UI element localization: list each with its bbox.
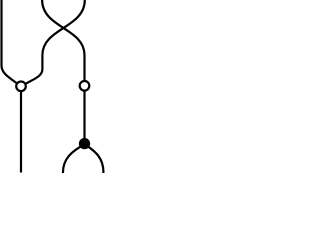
black dot D1 (filled node, splits into wires E and F) (79, 138, 90, 149)
wire C (third input, crosses to the left, curves into white node N1) (21, 0, 85, 86)
wire A (far-left input, curves into white node N1) (2, 0, 22, 86)
wire F (right leg out of black dot D1) (85, 144, 104, 173)
wire E (left leg out of black dot D1) (63, 144, 85, 173)
white node N2 (open circle on wire B) (80, 81, 90, 91)
wire D (output of node N1, straight down to bottom edge) (20, 86, 22, 172)
wire B (second input, crosses over to the right, down through node N2 to dot D1) (42, 0, 84, 144)
white node N1 (open circle, merge of wires A and C) (16, 82, 26, 92)
